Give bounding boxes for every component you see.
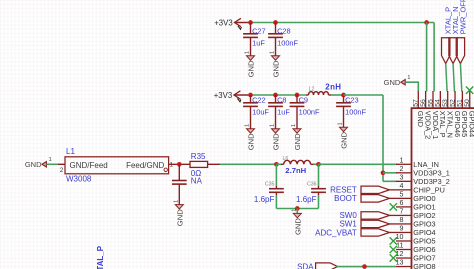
- IC pin 50 GPIO44: [469, 91, 471, 108]
- junction C9 tap: [295, 93, 300, 98]
- resistor R35: [190, 161, 208, 167]
- wire rail row2 C23 to corner: [344, 94, 384, 96]
- wire R35 right stub: [208, 163, 220, 165]
- ground flag left of antenna: [25, 157, 52, 169]
- net flag ADC_VBAT: [361, 229, 390, 236]
- svg-text:GND: GND: [340, 131, 349, 148]
- svg-text:1: 1: [245, 51, 251, 54]
- IC pin 57 GND: [417, 91, 419, 108]
- svg-text:55: 55: [427, 99, 434, 107]
- svg-text:56: 56: [420, 99, 427, 107]
- wire L2 right stub: [329, 94, 332, 96]
- svg-text:C22: C22: [252, 95, 266, 104]
- wire C27 upper lead: [250, 23, 252, 34]
- ground flag below C8: [270, 124, 281, 150]
- svg-text:GPIO8: GPIO8: [413, 262, 435, 269]
- net flag SW1: [361, 220, 390, 227]
- junction ground tap of pi filter: [295, 206, 300, 211]
- IC pin 5 GPIO0: [396, 197, 412, 199]
- svg-text:10uF: 10uF: [252, 107, 269, 116]
- wire XTAL_N flag to pin 52: [453, 64, 454, 92]
- svg-text:GND: GND: [175, 209, 184, 226]
- svg-text:GND/Feed: GND/Feed: [70, 161, 108, 170]
- net flag PWR_OFF: [456, 38, 464, 64]
- wire SW1 flag to pin 8: [389, 223, 396, 225]
- IC pin 55 VDDA_1: [432, 91, 434, 108]
- svg-text:C8: C8: [277, 95, 286, 104]
- IC pin 52 GPIO46: [454, 91, 456, 108]
- capacitor C9: [290, 103, 305, 107]
- power supply +3V3 (row 1): [214, 18, 241, 29]
- net flag BOOT: [361, 195, 390, 202]
- wire BOOT flag to pin 5: [389, 197, 396, 199]
- IC pin 3 VDD3P3_2: [396, 180, 412, 182]
- svg-text:9: 9: [400, 225, 404, 233]
- IC pin 53 XTAL_N: [447, 91, 449, 108]
- svg-text:GND: GND: [384, 78, 401, 87]
- svg-text:7: 7: [400, 208, 404, 216]
- wire +3V3 rail row1: [248, 22, 434, 24]
- svg-text:1uF: 1uF: [252, 38, 265, 47]
- no-connect X pin 11: [390, 246, 397, 253]
- wire L6 to C36 tap: [314, 163, 319, 165]
- IC U1 body outline: [412, 108, 474, 269]
- svg-text:51: 51: [457, 99, 464, 107]
- wire C9 lower lead: [296, 106, 298, 128]
- svg-text:54: 54: [435, 99, 442, 107]
- svg-text:C9: C9: [299, 95, 308, 104]
- wire ADC_VBAT flag to pin 9: [389, 231, 396, 233]
- wire RESET flag to pin 4: [389, 189, 396, 191]
- wire RF trace R35 to C35 tap: [220, 163, 276, 165]
- power supply +3V3 (row 2): [214, 91, 241, 102]
- wire L6 right stub: [311, 163, 314, 165]
- svg-text:ADC_VBAT: ADC_VBAT: [315, 228, 357, 237]
- svg-text:GND: GND: [293, 133, 302, 150]
- capacitor shunt at antenna feed: [172, 181, 187, 185]
- junction antenna C34 tap: [177, 162, 182, 167]
- wire +3V3 supply pin stub row2: [234, 94, 248, 96]
- wire +3V3 supply pin stub row1: [235, 22, 249, 24]
- svg-text:57: 57: [413, 99, 420, 107]
- svg-text:Feed/GND: Feed/GND: [126, 161, 164, 170]
- wire C35 upper lead: [275, 164, 277, 186]
- capacitor C36: [311, 189, 326, 193]
- IC pin 12 GPIO7: [396, 257, 412, 259]
- wire C8 upper lead: [275, 95, 277, 102]
- no-connect X pin 50: [466, 87, 473, 94]
- IC pin 56 VDDA_2: [425, 91, 427, 108]
- ground flag below C28: [270, 51, 281, 77]
- net flag SW0: [361, 212, 390, 219]
- svg-text:100nF: 100nF: [345, 107, 366, 116]
- svg-text:1: 1: [338, 122, 344, 125]
- svg-text:C35: C35: [265, 181, 275, 187]
- svg-text:PWR_OFF: PWR_OFF: [458, 0, 467, 34]
- IC pin 11 GPIO6: [396, 249, 412, 251]
- svg-text:GPIO44: GPIO44: [468, 111, 474, 137]
- wire rail1 to VDDA_2 pin: [426, 23, 428, 92]
- wire RF trace to LNA_IN pin: [319, 163, 398, 165]
- wire SDA to GPIO8 pin: [337, 266, 397, 268]
- capacitor C27: [243, 34, 258, 38]
- junction C36 tap: [316, 162, 321, 167]
- IC pin 7 GPIO2: [396, 214, 412, 216]
- no-connect X pin 6: [390, 203, 397, 210]
- ground flag below C9: [291, 124, 302, 150]
- svg-text:50: 50: [464, 99, 471, 107]
- capacitor C23: [336, 103, 351, 107]
- wire C36 upper stub: [318, 186, 320, 188]
- svg-text:2nH: 2nH: [325, 82, 341, 91]
- net flag XTAL_N: [449, 38, 457, 64]
- antenna L1 W3008 body: [65, 157, 169, 174]
- svg-text:1: 1: [270, 51, 276, 54]
- wire antenna pin 1 to R35: [169, 163, 190, 165]
- svg-text:1uF: 1uF: [277, 107, 290, 116]
- ground flag below C23: [338, 122, 349, 148]
- ground flag below C27: [245, 51, 256, 77]
- junction VDDA_2 tap: [424, 20, 429, 25]
- IC pin 8 GPIO3: [396, 223, 412, 225]
- svg-text:C23: C23: [345, 95, 359, 104]
- svg-text:4: 4: [400, 182, 404, 190]
- wire C27 lower lead: [250, 37, 252, 55]
- IC pin 2 VDD3P3_1: [396, 172, 412, 174]
- svg-text:2.7nH: 2.7nH: [285, 166, 306, 175]
- antenna feed marker circle: [164, 168, 167, 171]
- svg-text:GND: GND: [293, 218, 302, 235]
- svg-text:52: 52: [449, 99, 456, 107]
- svg-text:2: 2: [400, 165, 404, 173]
- svg-text:2: 2: [60, 167, 64, 174]
- svg-text:R35: R35: [191, 152, 206, 161]
- wire C22 lower lead: [250, 106, 252, 128]
- net flag SDA: [316, 263, 338, 269]
- svg-text:5: 5: [400, 191, 404, 199]
- svg-text:C27: C27: [252, 26, 266, 35]
- svg-text:1: 1: [49, 157, 52, 163]
- wire branch to pin VDD3P3_1: [383, 172, 397, 174]
- svg-text:L2: L2: [309, 86, 315, 92]
- ground flag below pi filter: [291, 209, 302, 235]
- IC pin 10 GPIO5: [396, 240, 412, 242]
- wire L6 left stub: [281, 163, 284, 165]
- junction C8 tap: [273, 93, 278, 98]
- no-connect X pin 10: [390, 237, 397, 244]
- junction C22 tap: [248, 93, 253, 98]
- wire antenna pin 2 stub: [58, 163, 65, 165]
- capacitor C22: [243, 103, 258, 107]
- net flag RESET: [361, 186, 390, 193]
- junction C35 tap: [274, 162, 279, 167]
- wire C28 lower lead: [275, 37, 277, 55]
- IC pin 54 XTAL_P: [439, 91, 441, 108]
- wire C35 upper stub: [275, 186, 277, 188]
- junction C28 tap: [273, 20, 278, 25]
- svg-text:1.6pF: 1.6pF: [254, 195, 275, 204]
- wire C23 upper lead: [343, 95, 345, 102]
- ground flag below C22: [245, 124, 256, 150]
- svg-text:1: 1: [291, 209, 297, 212]
- wire RF junction to L6: [276, 163, 281, 165]
- wire shunt cap upper lead: [178, 164, 180, 180]
- svg-text:6: 6: [400, 199, 404, 207]
- IC pin 9 GPIO4: [396, 231, 412, 233]
- wire bottom rail C35-C36: [276, 208, 318, 210]
- svg-text:GND: GND: [25, 160, 42, 169]
- svg-text:1: 1: [170, 161, 174, 168]
- wire C8 lower lead: [275, 106, 277, 128]
- svg-text:53: 53: [442, 99, 449, 107]
- svg-text:100nF: 100nF: [277, 38, 298, 47]
- wire C36 upper lead: [318, 164, 320, 186]
- wire GND to antenna pin 2: [46, 163, 58, 165]
- wire C36 lower lead: [318, 195, 320, 209]
- svg-text:W3008: W3008: [66, 175, 92, 184]
- svg-text:1.6pF: 1.6pF: [296, 195, 317, 204]
- wire +3V3 rail row2 left of L2: [248, 94, 306, 96]
- svg-text:1: 1: [270, 124, 276, 127]
- svg-text:1: 1: [400, 157, 404, 165]
- wire +3V3 vertical drop to VDD3P3: [382, 95, 384, 181]
- junction VDD3P3_1 branch: [381, 170, 386, 175]
- svg-text:1: 1: [245, 124, 251, 127]
- wire PWR_OFF flag to pin 51: [460, 64, 461, 92]
- inductor L2: [309, 92, 329, 95]
- svg-text:GND: GND: [247, 60, 256, 77]
- wire rail1 corner down to VDDA_1 pin: [433, 23, 435, 92]
- svg-text:8: 8: [400, 216, 404, 224]
- wire C35 lower stub: [275, 192, 277, 195]
- wire C36 lower stub: [318, 192, 320, 195]
- junction C27 tap: [248, 20, 253, 25]
- svg-text:GND: GND: [272, 133, 281, 150]
- IC pin 6 GPIO1: [396, 206, 412, 208]
- svg-text:+3V3: +3V3: [214, 18, 232, 27]
- svg-text:11: 11: [396, 242, 403, 250]
- wire SW0 flag to pin 7: [389, 214, 396, 216]
- capacitor C28: [268, 34, 283, 38]
- svg-text:+3V3: +3V3: [214, 91, 232, 100]
- capacitor C35: [269, 189, 284, 193]
- net flag XTAL_P: [442, 38, 450, 64]
- svg-text:GND: GND: [272, 60, 281, 77]
- wire C23 lower lead: [343, 106, 345, 127]
- svg-text:3: 3: [400, 174, 404, 182]
- svg-text:L1: L1: [66, 147, 75, 156]
- wire GND flag to pin 57: [405, 82, 418, 91]
- IC pin 4 CHIP_PU: [396, 189, 412, 191]
- wire C9 upper lead: [296, 95, 298, 102]
- no-connect X pin 12: [390, 254, 397, 261]
- wire C28 upper lead: [275, 23, 277, 34]
- capacitor C8: [268, 103, 283, 107]
- svg-text:GND: GND: [247, 133, 256, 150]
- wire rail row2 L2 to C23: [331, 94, 344, 96]
- wire C35 lower lead: [275, 195, 277, 209]
- svg-text:C28: C28: [277, 26, 291, 35]
- svg-text:XTAL_P: XTAL_P: [96, 245, 105, 269]
- IC pin 13 GPIO8: [396, 266, 412, 268]
- wire XTAL_P flag to pin 53: [446, 64, 447, 92]
- junction C23 tap: [341, 93, 346, 98]
- IC pin 51 GPIO45: [461, 91, 463, 108]
- wire corner to pin VDD3P3_2: [383, 180, 397, 182]
- svg-text:1: 1: [407, 75, 410, 81]
- IC pin 1 LNA_IN: [396, 163, 412, 165]
- junction on SDA wire: [362, 264, 367, 269]
- svg-text:NA: NA: [191, 177, 203, 186]
- ground flag at IC GND pin: [384, 75, 411, 87]
- inductor L6: [284, 160, 311, 164]
- svg-text:L6: L6: [283, 156, 289, 162]
- svg-text:1: 1: [291, 124, 297, 127]
- wire L2 left stub: [306, 94, 309, 96]
- svg-text:BOOT: BOOT: [334, 194, 357, 203]
- ground flag below shunt cap: [173, 200, 184, 226]
- svg-text:1: 1: [173, 200, 179, 203]
- wire to pi filter ground: [296, 209, 298, 214]
- svg-text:SDA: SDA: [297, 262, 314, 269]
- svg-text:C36: C36: [307, 181, 317, 187]
- svg-text:13: 13: [396, 259, 404, 267]
- wire C22 upper lead: [250, 95, 252, 102]
- svg-text:100nF: 100nF: [299, 107, 320, 116]
- wire shunt cap lower lead: [178, 184, 180, 205]
